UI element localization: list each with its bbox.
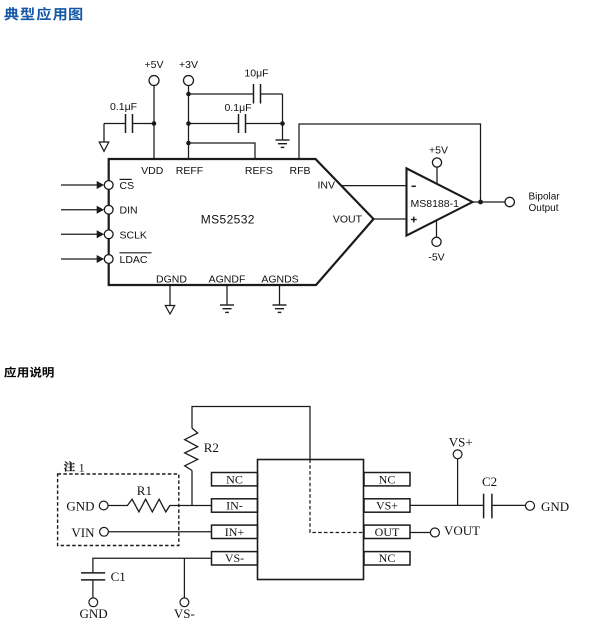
op-amp +5V supply bbox=[432, 158, 441, 184]
wire R1 to IN- bbox=[169, 505, 211, 507]
output terminal bbox=[505, 197, 514, 206]
MS52532 chip body bbox=[109, 159, 374, 285]
svg-text:VIN: VIN bbox=[71, 525, 95, 540]
wire VIN to IN+ bbox=[108, 531, 211, 533]
pin box NC right bottom bbox=[364, 552, 410, 565]
node junction +3V mid bbox=[186, 121, 191, 126]
pin SCLK terminal bbox=[104, 230, 113, 239]
svg-text:VS-: VS- bbox=[225, 551, 244, 565]
svg-text:NC: NC bbox=[379, 551, 396, 565]
svg-text:AGNDS: AGNDS bbox=[261, 274, 298, 286]
svg-text:VOUT: VOUT bbox=[333, 214, 363, 226]
svg-text:-5V: -5V bbox=[428, 252, 444, 264]
svg-text:MS8188-1: MS8188-1 bbox=[411, 198, 460, 210]
svg-text:C1: C1 bbox=[111, 569, 126, 584]
svg-text:SCLK: SCLK bbox=[120, 229, 147, 241]
svg-text:GND: GND bbox=[80, 606, 108, 621]
svg-text:NC: NC bbox=[379, 472, 396, 486]
pin box IN- bbox=[212, 499, 258, 512]
wire GND to R1 bbox=[108, 505, 128, 507]
VS+ terminal bbox=[453, 450, 462, 506]
node junction right leg bbox=[280, 121, 285, 126]
pin CS input arrow bbox=[61, 181, 104, 189]
resistor R2 bbox=[185, 428, 198, 470]
wire REFS branch bbox=[189, 143, 256, 159]
svg-text:NC: NC bbox=[226, 472, 243, 486]
svg-text:Output: Output bbox=[529, 203, 559, 214]
note1 dashed box bbox=[58, 474, 179, 546]
capacitor 0.1uF (right) bbox=[189, 114, 283, 133]
svg-text:INV: INV bbox=[317, 180, 335, 192]
svg-text:0.1μF: 0.1μF bbox=[224, 102, 251, 114]
resistor R1 bbox=[127, 499, 169, 512]
pin AGNDS ground (earth) bbox=[273, 285, 287, 312]
op-amp -5V supply bbox=[432, 221, 441, 247]
wire VS- to C1 bbox=[93, 558, 212, 573]
svg-text:REFS: REFS bbox=[245, 165, 273, 177]
svg-text:VOUT: VOUT bbox=[444, 523, 480, 538]
capacitor C 0.1uF (left) bbox=[104, 114, 154, 133]
svg-text:DIN: DIN bbox=[120, 205, 138, 217]
wire R2 top feedback bbox=[192, 407, 310, 460]
wire RFB feedback bbox=[299, 124, 481, 202]
svg-text:RFB: RFB bbox=[290, 165, 311, 177]
op-amp plus input sign bbox=[411, 217, 417, 223]
svg-text:Bipolar: Bipolar bbox=[529, 192, 561, 203]
svg-text:VS-: VS- bbox=[174, 606, 195, 621]
wire INV input bbox=[342, 185, 407, 187]
svg-text:+5V: +5V bbox=[145, 59, 164, 71]
VOUT terminal bbox=[430, 528, 439, 537]
pin box VS- bbox=[212, 552, 258, 565]
pin DGND ground (open arrow) bbox=[165, 285, 174, 314]
node junction output bbox=[478, 200, 483, 205]
title: 典型应用图 (Typical Application Diagram) bbox=[4, 7, 82, 21]
svg-text:IN+: IN+ bbox=[225, 525, 245, 539]
capacitor 10uF bbox=[189, 84, 283, 104]
ground (open arrow, left) bbox=[99, 124, 109, 152]
wire VDD supply vertical bbox=[153, 86, 155, 160]
pin LDAC input arrow bbox=[61, 255, 104, 263]
wire OUT to VOUT bbox=[410, 532, 430, 534]
wire VOUT to op-amp bbox=[374, 218, 407, 220]
svg-text:10μF: 10μF bbox=[244, 68, 268, 80]
svg-text:CS: CS bbox=[120, 180, 135, 192]
svg-text:VS+: VS+ bbox=[449, 434, 473, 449]
pin box NC right top bbox=[364, 473, 410, 486]
wire VS- terminal drop bbox=[183, 558, 185, 598]
pin DIN terminal bbox=[104, 205, 113, 214]
svg-text:IN-: IN- bbox=[226, 499, 243, 513]
svg-text:R2: R2 bbox=[204, 440, 219, 455]
ground (earth, caps) bbox=[276, 140, 290, 147]
svg-text:GND: GND bbox=[541, 499, 569, 514]
title: 应用说明 (Application Notes) bbox=[4, 367, 53, 378]
capacitor C2 bbox=[484, 494, 492, 519]
node junction +3V low bbox=[186, 141, 191, 146]
+3V supply terminal bbox=[184, 76, 194, 86]
svg-text:LDAC: LDAC bbox=[120, 254, 148, 266]
svg-text:DGND: DGND bbox=[156, 274, 187, 286]
svg-text:C2: C2 bbox=[482, 474, 497, 489]
internal dashed connection bbox=[310, 460, 364, 533]
label zhu1 (note 1) bbox=[64, 460, 85, 474]
node junction +3V top bbox=[186, 92, 191, 97]
pin SCLK input arrow bbox=[61, 230, 104, 238]
overline LDAC bbox=[120, 252, 152, 254]
pin box OUT bbox=[364, 525, 410, 538]
chip body (amplifier) bbox=[258, 460, 364, 580]
+5V supply terminal bbox=[149, 76, 159, 86]
pin AGNDF ground (earth) bbox=[220, 285, 234, 312]
svg-text:AGNDF: AGNDF bbox=[209, 274, 246, 286]
wire 10uF right leg bbox=[282, 94, 284, 140]
wire VS+ net bbox=[410, 504, 526, 506]
op-amp U1 MS8188-1 body bbox=[407, 168, 473, 235]
svg-text:REFF: REFF bbox=[176, 165, 203, 177]
overline CS bbox=[120, 178, 132, 180]
svg-text:MS52532: MS52532 bbox=[201, 213, 255, 227]
GND terminal (note box) bbox=[99, 501, 108, 510]
svg-text:GND: GND bbox=[66, 498, 94, 513]
node junction VDD/cap bbox=[152, 121, 157, 126]
svg-text:+5V: +5V bbox=[429, 145, 448, 157]
pin LDAC terminal bbox=[104, 255, 113, 264]
wire op-amp output bbox=[473, 201, 506, 203]
svg-text:R1: R1 bbox=[137, 483, 152, 498]
svg-text:+3V: +3V bbox=[179, 59, 198, 71]
GND terminal (right) bbox=[526, 501, 535, 510]
wire R2 bottom bbox=[191, 471, 193, 506]
wire REFF supply vertical bbox=[188, 86, 190, 160]
op-amp minus input sign bbox=[412, 185, 416, 187]
VIN terminal bbox=[100, 527, 109, 536]
pin box NC left bbox=[212, 473, 258, 486]
svg-text:1: 1 bbox=[79, 460, 85, 474]
pin DIN input arrow bbox=[61, 206, 104, 214]
pin box IN+ bbox=[212, 525, 258, 538]
VS- terminal bbox=[180, 598, 189, 607]
pin box VS+ bbox=[364, 499, 410, 512]
capacitor C1 bbox=[81, 573, 105, 598]
GND terminal (C1) bbox=[89, 598, 98, 607]
svg-text:VS+: VS+ bbox=[376, 499, 398, 513]
svg-text:VDD: VDD bbox=[141, 165, 164, 177]
svg-text:0.1μF: 0.1μF bbox=[110, 101, 137, 113]
pin CS terminal bbox=[104, 181, 113, 190]
svg-text:OUT: OUT bbox=[375, 525, 400, 539]
